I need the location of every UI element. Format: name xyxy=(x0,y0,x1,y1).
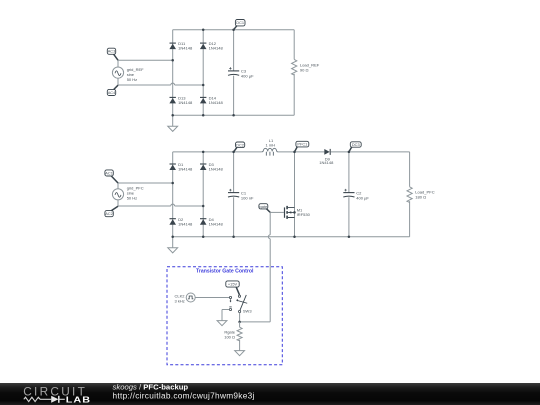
resistor Load_PFC xyxy=(407,187,435,203)
svg-text:Transistor Gate Control: Transistor Gate Control xyxy=(196,269,254,275)
node +15V xyxy=(226,281,240,295)
wire Rgate stubs xyxy=(239,322,241,351)
wire load branch REF xyxy=(293,30,295,116)
svg-text:SW3: SW3 xyxy=(243,309,252,314)
ground Rgate xyxy=(235,351,245,356)
svg-text:PFC1: PFC1 xyxy=(297,142,307,147)
voltage source grid_REF xyxy=(112,67,144,82)
wire AC3 to bridge xyxy=(118,60,173,67)
wire AC2 to bridge xyxy=(118,200,203,206)
voltage source CLK2 xyxy=(175,293,196,303)
ground PFC xyxy=(168,237,178,253)
logo resistor zigzag xyxy=(24,397,51,401)
diode D1 xyxy=(169,162,193,171)
node AC3 xyxy=(107,48,118,60)
wire top rail REF xyxy=(173,29,295,31)
diode D14 xyxy=(200,95,224,104)
node AC2 xyxy=(105,206,118,217)
resistor Rgate xyxy=(224,327,242,341)
wire CLK2 to switch xyxy=(195,297,229,299)
wire bottom rail REF xyxy=(173,114,295,116)
wire gate vertical xyxy=(268,212,270,322)
capacitor C2 xyxy=(343,189,369,200)
dashed control box xyxy=(167,267,282,365)
diode D9 xyxy=(319,149,334,165)
node DC3 xyxy=(349,142,361,152)
wire throw2 to ground xyxy=(222,310,229,321)
svg-text:180 Ω: 180 Ω xyxy=(415,194,426,199)
junction dots REF xyxy=(171,28,234,116)
diode D4 xyxy=(200,217,224,226)
wire gate to MOSFET xyxy=(270,211,284,213)
resistor Load_REF xyxy=(292,59,320,75)
svg-text:Load_REF: Load_REF xyxy=(300,62,320,67)
svg-text:IRF530: IRF530 xyxy=(297,212,311,217)
svg-text:AC3: AC3 xyxy=(108,49,116,54)
switch SW3 xyxy=(229,295,252,314)
svg-text:1N4148: 1N4148 xyxy=(209,100,224,105)
node DC1 xyxy=(234,20,245,30)
svg-text:1N4148: 1N4148 xyxy=(209,46,224,51)
svg-text:1N4148: 1N4148 xyxy=(209,221,224,226)
junction dots PFC xyxy=(171,151,350,238)
svg-text:100 nF: 100 nF xyxy=(241,195,254,200)
svg-text:50 Hz: 50 Hz xyxy=(127,77,137,82)
svg-text:400 µF: 400 µF xyxy=(356,195,369,200)
svg-text:90 Ω: 90 Ω xyxy=(300,68,309,73)
svg-text:DC2: DC2 xyxy=(236,142,244,147)
wire left bridge column PFC xyxy=(172,152,174,237)
logo CIRCUIT text xyxy=(23,385,87,399)
title Transistor Gate Control xyxy=(196,269,254,275)
wire AC1 to bridge xyxy=(118,183,173,189)
node AC4 xyxy=(107,85,118,95)
transistor M1 xyxy=(285,206,311,219)
svg-text:LAB: LAB xyxy=(66,396,91,405)
diode D12 xyxy=(200,41,224,50)
diode D13 xyxy=(169,95,193,104)
capacitor C1 xyxy=(228,189,254,200)
wire switch common down xyxy=(239,313,241,322)
wire AC4 to bridge xyxy=(118,78,203,85)
wire C3 branch xyxy=(233,30,235,116)
svg-text:1N4148: 1N4148 xyxy=(178,100,193,105)
svg-text:100 Ω: 100 Ω xyxy=(224,335,235,340)
svg-text:DC1: DC1 xyxy=(236,20,244,25)
junction dot gate control xyxy=(238,321,241,324)
svg-text:1N4148: 1N4148 xyxy=(178,167,193,172)
wire left bridge column REF xyxy=(172,30,174,116)
node PFC1 xyxy=(295,141,309,152)
ground switch xyxy=(217,321,227,326)
wire MOSFET drain-source column xyxy=(294,152,296,237)
wire right bridge column PFC xyxy=(202,152,204,237)
svg-text:AC2: AC2 xyxy=(105,211,113,216)
svg-text:AC4: AC4 xyxy=(108,90,116,95)
logo diode symbol xyxy=(51,396,65,403)
diode D2 xyxy=(169,217,193,226)
wire C2 branch xyxy=(348,152,350,237)
voltage source grid_PFC xyxy=(112,186,143,201)
svg-text:1N4148: 1N4148 xyxy=(209,167,224,172)
svg-text:400 µF: 400 µF xyxy=(241,74,254,79)
diode D11 xyxy=(169,41,193,50)
inductor L1 xyxy=(262,138,278,156)
wire right bridge column REF xyxy=(202,30,204,116)
wire bottom rail PFC xyxy=(173,236,410,238)
svg-text:AC1: AC1 xyxy=(105,170,113,175)
svg-text:1 mH: 1 mH xyxy=(266,143,276,148)
svg-text:50 Hz: 50 Hz xyxy=(127,196,137,201)
logo LAB text xyxy=(66,396,91,405)
capacitor C3 xyxy=(228,67,254,78)
wire load branch PFC xyxy=(409,152,411,237)
svg-text:1N4148: 1N4148 xyxy=(178,221,193,226)
node AC1 xyxy=(105,170,118,183)
wire junction to gate xyxy=(240,321,271,323)
svg-text:3 kHz: 3 kHz xyxy=(175,298,185,303)
svg-text:1N4148: 1N4148 xyxy=(319,160,334,165)
node DC2 xyxy=(234,142,245,152)
diode D3 xyxy=(200,162,224,171)
footer url line xyxy=(113,391,255,401)
footer author line xyxy=(113,382,189,391)
svg-text:DC3: DC3 xyxy=(352,142,360,147)
wire C1 branch xyxy=(233,152,235,237)
ground REF xyxy=(168,115,178,131)
footer bar xyxy=(0,383,540,405)
node gate xyxy=(259,204,270,213)
svg-text:http://circuitlab.com/cwuj7hwm: http://circuitlab.com/cwuj7hwm9ke3j xyxy=(113,391,255,401)
svg-text:gate: gate xyxy=(260,204,268,209)
svg-text:1N4148: 1N4148 xyxy=(178,46,193,51)
wire top rail PFC xyxy=(173,151,410,153)
svg-text:+15V: +15V xyxy=(228,281,238,286)
